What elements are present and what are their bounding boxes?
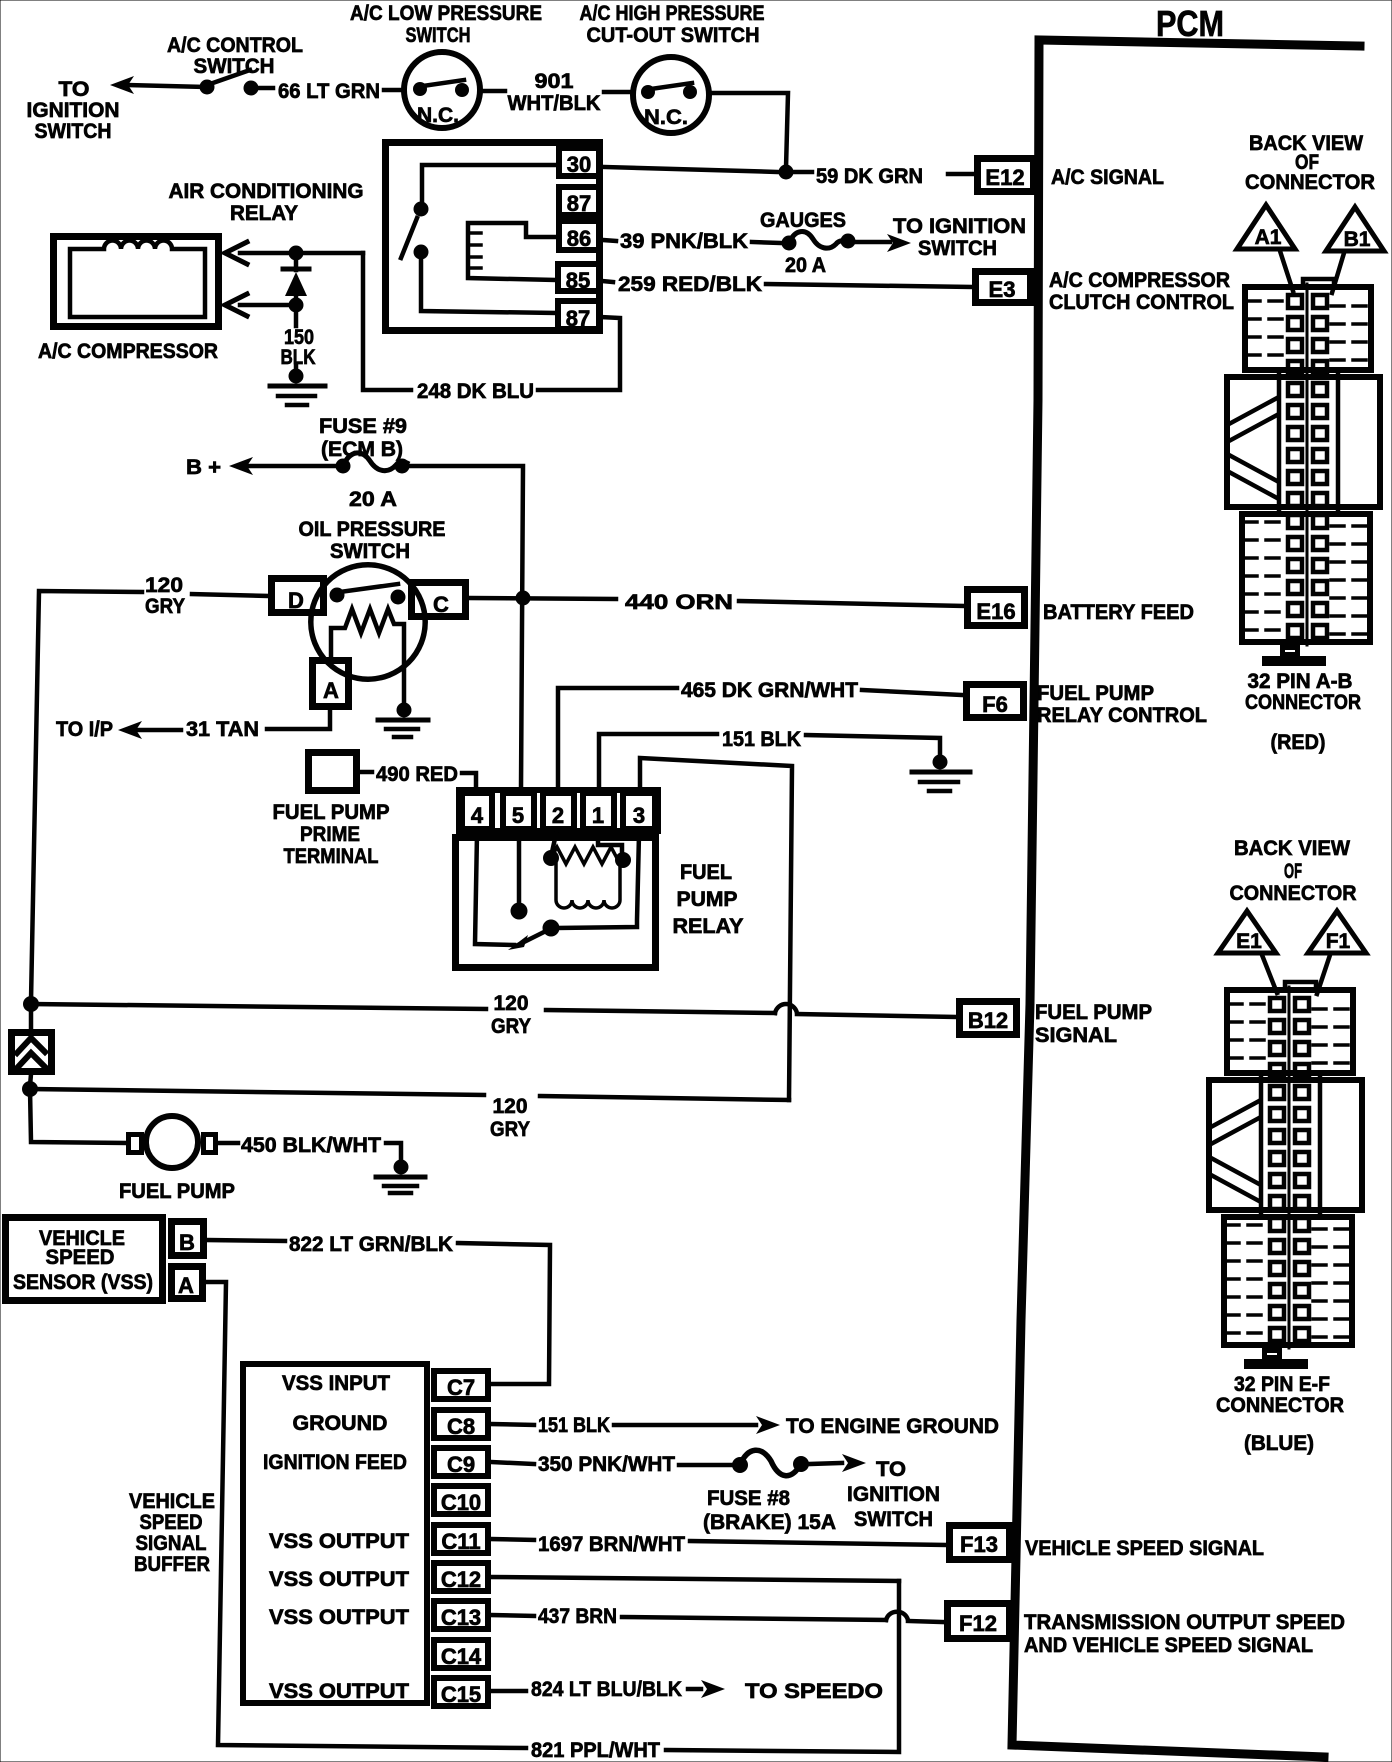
svg-text:TRANSMISSION OUTPUT SPEED: TRANSMISSION OUTPUT SPEED [1024,1611,1345,1634]
svg-text:WHT/BLK: WHT/BLK [508,92,601,115]
svg-text:3: 3 [633,803,645,828]
relay pin 86 [559,221,600,250]
fuse #9 ECM B 20 A [336,453,410,511]
svg-text:31 TAN: 31 TAN [186,718,259,741]
svg-text:(RED): (RED) [1271,731,1326,754]
svg-text:PRIME: PRIME [300,823,360,846]
oil pressure switch terminal A [313,661,349,707]
arrow to ignition switch [110,76,134,94]
terminal F13 [950,1526,1010,1560]
node: junction on 59 DK GRN [779,165,794,180]
svg-text:SWITCH: SWITCH [330,540,410,563]
svg-text:TO I/P: TO I/P [56,718,113,741]
VSS terminal A [172,1267,203,1299]
svg-text:PCM: PCM [1156,3,1224,44]
buffer labels [263,1372,409,1703]
buffer pin C15 [434,1678,488,1706]
check valve symbol [12,1004,52,1086]
terminal E3 [976,272,1031,303]
fuel pump relay label [673,861,744,938]
TO IGNITION SWITCH label (top left) [27,78,120,143]
svg-text:85: 85 [566,268,590,293]
relay internal wire pin 2 to coil [552,834,556,852]
svg-text:VSS OUTPUT: VSS OUTPUT [269,1606,409,1629]
svg-text:490 RED: 490 RED [376,763,458,786]
svg-text:C: C [433,592,449,617]
relay pin 5 [503,793,534,829]
svg-text:VSS OUTPUT: VSS OUTPUT [269,1530,409,1553]
svg-text:A/C CONTROL: A/C CONTROL [167,34,303,57]
node 120 GRY upper junction [23,996,39,1012]
diode [283,253,309,305]
svg-text:IGNITION: IGNITION [27,99,120,122]
relay internal switch wire from pin 30 [422,165,556,201]
svg-text:E16: E16 [976,599,1015,624]
svg-text:IGNITION FEED: IGNITION FEED [263,1451,407,1474]
svg-text:AIR CONDITIONING: AIR CONDITIONING [169,180,364,203]
arrow to ignition switch (fuse #8) [809,1463,842,1464]
fuel pump relay box [456,838,656,968]
svg-text:A/C HIGH PRESSURE: A/C HIGH PRESSURE [580,2,765,25]
relay coil [468,223,556,280]
terminal B12 [960,1002,1017,1035]
buffer pin C13 [434,1601,488,1629]
node battery feed junction [516,591,531,606]
relay pin 30 [559,148,600,176]
terminal E16 [968,590,1025,626]
svg-text:32 PIN E-F: 32 PIN E-F [1234,1373,1330,1396]
wire down to fuel pump [30,1089,126,1143]
svg-text:87: 87 [566,306,590,331]
svg-text:CLUTCH CONTROL: CLUTCH CONTROL [1049,291,1234,314]
relay internal wire pin 4 to fixed contact [475,834,514,945]
svg-text:A/C SIGNAL: A/C SIGNAL [1051,166,1164,189]
svg-text:SWITCH: SWITCH [406,24,471,47]
ground (151 BLK) [912,755,970,792]
A/C low pressure switch [404,52,480,128]
svg-text:39 PNK/BLK: 39 PNK/BLK [620,230,748,253]
svg-text:VSS OUTPUT: VSS OUTPUT [269,1680,409,1703]
wire 31 TAN from terminal A [267,710,330,729]
terminal E12 [978,159,1034,192]
svg-text:TO ENGINE GROUND: TO ENGINE GROUND [786,1415,999,1438]
svg-text:151 BLK: 151 BLK [538,1414,610,1437]
wire C12 output [491,1577,899,1581]
fuel pump relay pin row [459,790,658,831]
relay pin 87a [559,187,600,215]
svg-text:437 BRN: 437 BRN [538,1605,617,1628]
svg-text:C8: C8 [447,1414,475,1439]
svg-text:AND VEHICLE SPEED SIGNAL: AND VEHICLE SPEED SIGNAL [1024,1634,1313,1657]
wire 821 PPL/WHT from terminal A [205,1282,526,1748]
wire 824 LT BLU/BLK to speedo [491,1689,526,1694]
svg-text:GRY: GRY [490,1118,530,1141]
wire to A/C control switch [126,85,204,87]
svg-text:450 BLK/WHT: 450 BLK/WHT [241,1134,381,1157]
pin A1 callout triangle [1237,205,1295,249]
svg-text:C12: C12 [441,1567,481,1592]
relay internal switch blade [401,218,417,258]
svg-text:86: 86 [567,226,591,251]
svg-text:N.C.: N.C. [644,106,688,129]
compressor connector arrow bottom [225,294,247,316]
oil pressure switch blade [340,584,398,592]
32 pin A-B connector label [1245,670,1361,754]
wire fuse #9 to battery feed line [409,466,523,788]
air conditioning relay label [169,180,364,225]
buffer pin C14 [434,1640,488,1668]
buffer pin C10 [434,1486,488,1514]
svg-text:1: 1 [592,803,604,828]
oil pressure switch terminal D [272,579,324,613]
svg-text:259 RED/BLK: 259 RED/BLK [618,273,762,296]
svg-text:4: 4 [471,803,484,828]
buffer pin C8 [434,1410,488,1438]
svg-text:A: A [323,678,339,703]
leader line A1 [1280,251,1293,291]
A/C low pressure switch label [350,2,542,47]
svg-text:A: A [178,1273,194,1298]
svg-text:E12: E12 [985,165,1024,190]
svg-text:120: 120 [494,992,529,1015]
vehicle speed sensor box [6,1218,163,1301]
svg-text:CUT-OUT SWITCH: CUT-OUT SWITCH [587,24,760,47]
svg-text:SPEED: SPEED [140,1511,203,1534]
wire 1697 BRN/WHT to F13 [491,1539,534,1540]
wire 248 DK BLU [363,253,411,390]
svg-text:FUSE #9: FUSE #9 [319,415,407,438]
air conditioning relay box [386,143,600,331]
oil pressure switch resistor [331,609,404,706]
relay internal wire pin 1 to coil [598,834,622,853]
relay internal wire pin 3 to blade [558,834,639,928]
VSS terminal B [172,1222,204,1256]
svg-text:F12: F12 [959,1611,997,1636]
pin B1 callout triangle [1326,207,1384,251]
svg-text:66 LT GRN: 66 LT GRN [278,80,380,103]
svg-text:C13: C13 [441,1605,481,1630]
fuel pump prime terminal box [309,753,357,791]
svg-text:A1: A1 [1255,226,1282,249]
svg-text:OIL PRESSURE: OIL PRESSURE [299,518,446,541]
svg-text:OF: OF [1284,860,1302,883]
svg-text:1697 BRN/WHT: 1697 BRN/WHT [538,1533,685,1556]
svg-text:A/C COMPRESSOR: A/C COMPRESSOR [1049,269,1230,292]
fuel pump relay control label [1037,682,1207,727]
oil pressure switch body [311,565,425,679]
32-pin A-B connector (red) [1227,279,1380,664]
svg-text:CONNECTOR: CONNECTOR [1245,691,1361,714]
compressor connector arrow top [225,242,247,264]
svg-text:A/C COMPRESSOR: A/C COMPRESSOR [38,340,218,363]
svg-text:SIGNAL: SIGNAL [136,1532,207,1555]
svg-text:E1: E1 [1236,930,1262,953]
buffer pin C12 [434,1563,488,1591]
svg-text:SWITCH: SWITCH [35,120,112,143]
svg-text:BLK: BLK [281,346,316,369]
svg-text:SPEED: SPEED [46,1246,115,1269]
svg-text:87: 87 [567,191,591,216]
oil pressure switch label [299,518,446,563]
terminal F6 [967,685,1024,718]
svg-text:C11: C11 [441,1529,480,1554]
oil pressure switch contacts [330,588,345,603]
svg-text:248 DK BLU: 248 DK BLU [417,380,534,403]
wire 350 PNK/WHT [491,1462,534,1464]
svg-text:FUSE #8: FUSE #8 [707,1487,790,1510]
svg-text:CONNECTOR: CONNECTOR [1230,882,1357,905]
svg-text:120: 120 [493,1095,528,1118]
wire 901 WHT/BLK [483,89,505,94]
wire 822 LT GRN/BLK [207,1240,285,1241]
wire 120 GRY from terminal D [192,594,268,596]
ground (compressor) [270,369,325,406]
svg-text:GRY: GRY [491,1015,531,1038]
wire 59 DK GRN to E12 [793,170,812,175]
svg-text:30: 30 [567,152,591,177]
wire top arrow to 248 DK BLU corner [240,251,363,256]
leader line F1 [1317,955,1330,994]
svg-text:CONNECTOR: CONNECTOR [1216,1394,1344,1417]
wire 120 GRY second to relay [30,1089,484,1095]
PCM boundary [1012,40,1360,1757]
fuse GAUGES 20 A [760,209,856,277]
svg-text:SWITCH: SWITCH [918,237,997,260]
svg-text:VSS INPUT: VSS INPUT [282,1372,390,1395]
svg-text:C14: C14 [441,1644,482,1669]
wire from cut-out switch down to A/C signal node [712,93,788,168]
back view of connector label (A-B) [1245,132,1375,194]
svg-text:GRY: GRY [145,595,185,618]
ground (fuel pump) [376,1160,425,1194]
relay internal switch contacts [414,202,429,217]
svg-text:VEHICLE: VEHICLE [129,1490,215,1513]
wire from pin 3 down to fuel pump signal [640,758,792,1100]
svg-text:B +: B + [186,456,221,479]
buffer pin C9 [434,1448,488,1476]
svg-text:GAUGES: GAUGES [760,209,846,232]
svg-text:FUEL PUMP: FUEL PUMP [1035,1001,1152,1024]
relay internal wire pin 5 contact [517,834,522,904]
svg-text:IGNITION: IGNITION [847,1483,940,1506]
svg-text:822 LT GRN/BLK: 822 LT GRN/BLK [289,1233,453,1256]
svg-text:RELAY CONTROL: RELAY CONTROL [1037,704,1207,727]
A/C compressor box [54,237,219,327]
A/C high pressure cut-out switch label [580,2,765,47]
32 pin E-F connector label [1216,1373,1344,1455]
wire 437 BRN to F12 [491,1615,534,1616]
svg-text:5: 5 [512,803,524,828]
svg-text:20 A: 20 A [785,254,826,277]
wire left vertical 120 GRY [31,591,142,1001]
svg-text:824 LT BLU/BLK: 824 LT BLU/BLK [531,1678,682,1701]
svg-text:BUFFER: BUFFER [134,1553,210,1576]
svg-text:120: 120 [145,574,183,597]
svg-text:151 BLK: 151 BLK [722,728,801,751]
svg-text:E3: E3 [989,277,1016,302]
A/C compressor clutch control label [1049,269,1234,314]
A/C control switch [200,70,259,96]
relay pin 87 [558,301,599,329]
transmission output speed label [1024,1611,1345,1657]
svg-text:B12: B12 [968,1008,1008,1033]
svg-text:465 DK GRN/WHT: 465 DK GRN/WHT [681,679,858,702]
arrow to ignition switch (gauges) [856,240,890,245]
oil pressure switch terminal C [412,583,466,617]
svg-text:C9: C9 [447,1452,475,1477]
fuel pump signal label [1035,1001,1152,1047]
svg-text:20 A: 20 A [349,488,397,511]
wire 465 DK GRN/WHT from pin 2 [558,688,677,790]
svg-text:FUEL PUMP: FUEL PUMP [1037,682,1154,705]
svg-text:PUMP: PUMP [677,888,738,911]
svg-text:FUEL PUMP: FUEL PUMP [273,801,390,824]
fuel pump prime terminal label [273,801,390,868]
svg-text:F6: F6 [982,692,1008,717]
svg-text:32 PIN A-B: 32 PIN A-B [1248,670,1353,693]
svg-text:RELAY: RELAY [673,915,744,938]
A/C compressor internal winding [70,241,205,318]
svg-text:VSS OUTPUT: VSS OUTPUT [269,1568,409,1591]
svg-text:TO IGNITION: TO IGNITION [893,215,1026,238]
fuel pump motor [129,1116,216,1168]
leader line E1 [1262,955,1277,993]
svg-text:SIGNAL: SIGNAL [1035,1024,1117,1047]
node 120 GRY lower junction [22,1081,38,1097]
svg-text:CONNECTOR: CONNECTOR [1245,171,1375,194]
svg-text:N.C.: N.C. [417,104,459,127]
vehicle speed signal buffer label [129,1490,215,1576]
pin F1 callout triangle [1308,911,1366,953]
svg-text:440 ORN: 440 ORN [625,591,733,614]
terminal F12 [948,1604,1010,1639]
relay pin 1 [583,793,614,829]
wire 259 RED/BLK from pin 85 [602,281,613,282]
buffer pin C7 [434,1371,488,1399]
vehicle speed signal buffer box [243,1364,427,1703]
wire 440 ORN from terminal C [469,598,616,599]
svg-text:GROUND: GROUND [293,1412,388,1435]
svg-text:B1: B1 [1344,228,1371,251]
pin E1 callout triangle [1218,911,1276,953]
svg-text:BACK VIEW: BACK VIEW [1234,837,1350,860]
wire 151 BLK from pin 1 [599,734,717,790]
svg-text:TO: TO [59,78,90,101]
wire 450 BLK/WHT [218,1141,238,1146]
svg-text:VEHICLE SPEED SIGNAL: VEHICLE SPEED SIGNAL [1025,1537,1264,1560]
svg-text:2: 2 [552,803,564,828]
svg-text:B: B [179,1230,195,1255]
svg-text:821 PPL/WHT: 821 PPL/WHT [531,1739,660,1762]
node bottom of diode [289,298,304,313]
svg-text:FUEL: FUEL [680,861,732,884]
wire 120 GRY to B12 [31,1004,486,1009]
svg-text:SWITCH: SWITCH [854,1508,933,1531]
svg-text:(ECM B): (ECM B) [321,438,403,461]
relay pin 2 [543,793,574,829]
wire 39 PNK/BLK from pin 86 [603,240,616,241]
node top of diode [289,246,304,261]
wire pin30 to node [604,167,779,172]
relay pin 4 [462,793,492,829]
svg-text:SENSOR (VSS): SENSOR (VSS) [13,1271,153,1294]
A/C high pressure cut-out switch [633,57,709,133]
leader line B1 [1332,253,1344,293]
svg-text:BATTERY FEED: BATTERY FEED [1043,601,1194,624]
relay coil (fuel pump relay) [543,847,631,908]
wire 490 RED [360,770,372,775]
svg-text:C7: C7 [447,1375,475,1400]
ground (oil pressure switch) [378,703,428,738]
relay internal switch blade [543,920,560,937]
svg-text:901: 901 [535,70,574,93]
svg-text:C10: C10 [441,1490,481,1515]
32-pin E-F connector (blue) [1209,982,1362,1367]
svg-text:TO SPEEDO: TO SPEEDO [745,1680,883,1703]
svg-text:D: D [288,588,304,613]
wire bottom arrow to diode [240,303,296,308]
arrow B+ [229,457,253,475]
relay internal wire to pin 87 [421,260,555,313]
svg-text:(BRAKE) 15A: (BRAKE) 15A [703,1511,836,1534]
svg-text:TO: TO [876,1458,906,1481]
A/C control switch label [167,34,303,78]
fuse #8 brake 15A [703,1450,836,1534]
svg-text:(BLUE): (BLUE) [1244,1432,1314,1455]
svg-text:C15: C15 [441,1682,481,1707]
back view of connector label (E-F) [1230,837,1357,905]
svg-text:F1: F1 [1326,930,1351,953]
wire 150 BLK to ground [294,305,299,326]
relay pin 85 [558,264,599,291]
svg-text:59 DK GRN: 59 DK GRN [816,165,923,188]
svg-text:FUEL PUMP: FUEL PUMP [119,1180,235,1203]
svg-text:A/C LOW PRESSURE: A/C LOW PRESSURE [350,2,542,25]
fuse #9 label [319,415,407,461]
svg-text:TERMINAL: TERMINAL [284,845,379,868]
svg-text:RELAY: RELAY [230,202,298,225]
relay pin 3 [623,793,655,829]
buffer pin C11 [434,1525,488,1553]
wire 66 LT GRN [258,86,273,91]
svg-text:350 PNK/WHT: 350 PNK/WHT [538,1453,675,1476]
svg-text:F13: F13 [960,1532,998,1557]
wire 151 BLK to engine ground [491,1424,534,1425]
